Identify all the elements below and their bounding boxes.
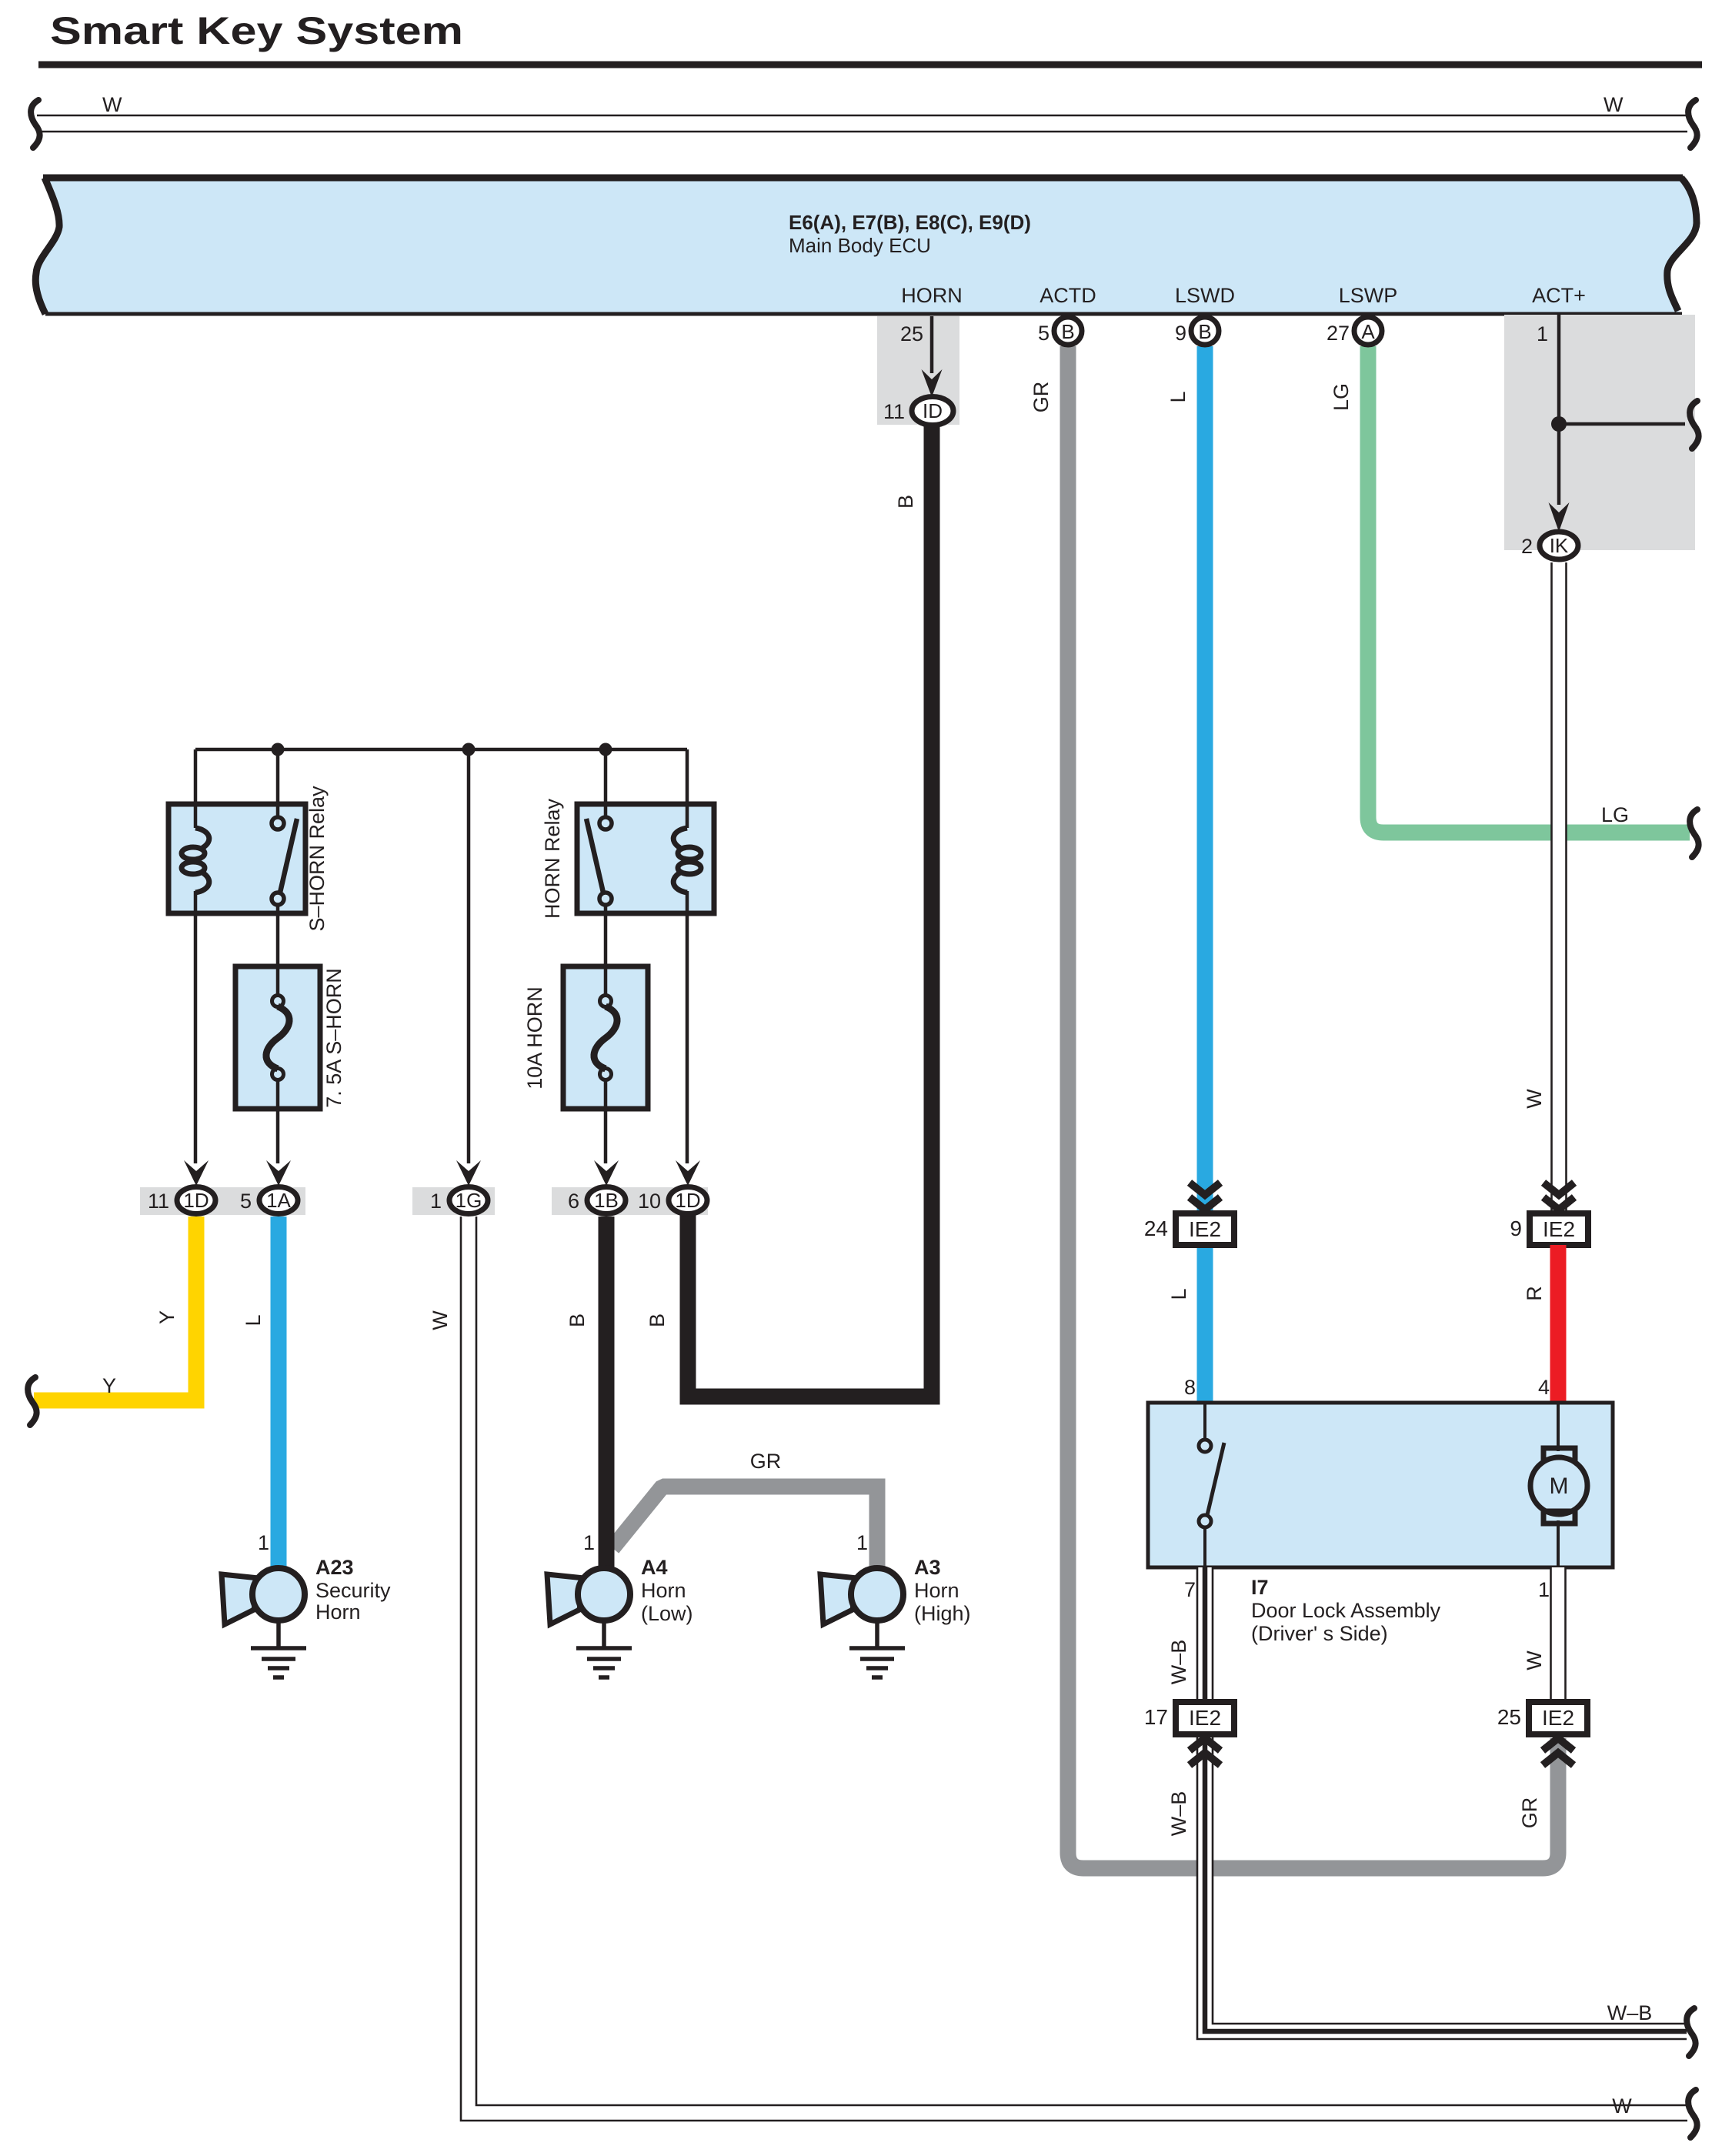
gray band 6/1B 10/1D [552,1187,708,1215]
svg-text:4: 4 [1538,1376,1550,1399]
switch of HORN relay [599,817,612,829]
svg-text:25: 25 [1497,1705,1521,1729]
arrow into 1B (6) [594,1160,619,1186]
connector 1A oval (5) [259,1187,298,1214]
wire L from IE2 24 to door lock pin 8 [1197,1245,1213,1403]
svg-text:L: L [1167,1288,1190,1300]
connector 1D oval (11) [177,1187,215,1214]
horn A23 Security Horn [222,1568,305,1624]
svg-text:1A: 1A [266,1189,291,1212]
svg-text:7. 5A S–HORN: 7. 5A S–HORN [322,968,345,1108]
coil of HORN relay [673,828,701,893]
svg-text:LG: LG [1601,803,1629,826]
svg-text:LG: LG [1330,383,1353,411]
svg-text:9: 9 [1510,1217,1522,1240]
fuse 10A HORN box [563,966,648,1109]
pin connector A (LSWP 27) [1354,317,1382,345]
arrow into 1D (10) [676,1160,700,1186]
svg-text:W: W [1604,93,1624,116]
wire W white from door lock pin 1 down to IE2 25 [1550,1567,1566,1702]
wire B from 1B(6) down to horn low [599,1217,615,1568]
svg-text:W: W [429,1310,452,1330]
chevron arrows into IE2 9 [1543,1183,1574,1210]
svg-text:IE2: IE2 [1542,1706,1574,1730]
connector 1G oval (1) [449,1187,488,1214]
wire break curl left of Y [28,1377,37,1425]
wire break curl right of W bus [1688,100,1697,148]
fuse element 7.5A S-HORN [272,996,284,1007]
svg-text:9: 9 [1175,322,1186,345]
wire branch to break [1559,422,1685,426]
ECU Main Body ECU box (torn ends) [35,178,1697,314]
svg-text:ID: ID [923,399,943,422]
arrow into 1D (11) [184,1160,209,1186]
fuse element 10A HORN [600,996,612,1007]
wire B thick from ID connector down, left, up to 1D connector [688,423,932,1397]
svg-text:8: 8 [1184,1376,1196,1399]
relay HORN Relay box [577,804,714,913]
svg-text:HORN: HORN [901,284,963,307]
svg-text:B: B [1198,320,1211,343]
connector IE2 (24) [1176,1213,1234,1245]
svg-text:I7: I7 [1251,1576,1269,1599]
svg-text:Horn: Horn [914,1579,959,1602]
svg-text:10A HORN: 10A HORN [523,986,546,1090]
wire HORN relay switch lead [604,749,608,817]
svg-text:Horn: Horn [641,1579,686,1602]
fuse 7.5A S-HORN box [235,966,320,1109]
svg-text:L: L [1166,391,1190,402]
svg-text:GR: GR [1518,1797,1541,1829]
svg-text:2: 2 [1521,535,1533,558]
svg-text:B: B [566,1313,589,1327]
svg-text:1: 1 [430,1190,442,1213]
svg-text:IE2: IE2 [1189,1217,1221,1241]
pin connector B (LSWD 9) [1191,317,1219,345]
wire LG from LSWP pin down then right to break [1368,346,1690,833]
connector IE2 (25) [1529,1702,1587,1734]
svg-text:1B: 1B [594,1189,619,1212]
connector IE2 (9) [1530,1213,1588,1245]
wire W-B white/black from door lock pin 7 down then right to break [1197,1567,1687,2039]
svg-text:(Driver' s Side): (Driver' s Side) [1251,1622,1388,1645]
svg-text:W–B: W–B [1607,2001,1653,2024]
svg-text:Y: Y [102,1374,116,1397]
ground at A23 [251,1620,306,1677]
svg-text:5: 5 [240,1190,252,1213]
svg-text:Door Lock Assembly: Door Lock Assembly [1251,1599,1441,1622]
svg-text:B: B [1061,320,1074,343]
svg-text:1D: 1D [675,1189,700,1212]
svg-text:A23: A23 [315,1556,354,1579]
svg-text:LSWP: LSWP [1339,284,1398,307]
svg-text:A3: A3 [914,1556,941,1579]
arrow into IK [1549,502,1570,532]
wire R red from IE2 9 to door lock pin 4 [1550,1245,1567,1403]
motor inside door lock [1557,1403,1560,1451]
svg-text:IE2: IE2 [1189,1706,1221,1730]
svg-text:A4: A4 [641,1556,668,1579]
svg-text:11: 11 [883,400,905,423]
svg-text:W: W [1523,1089,1546,1109]
wire L from 1A(5) down to security horn [271,1217,287,1568]
wire ACT+ pin stub [1557,314,1561,505]
svg-text:GR: GR [1030,382,1053,413]
svg-text:ACT+: ACT+ [1532,284,1586,307]
wire break curl right of branch [1690,401,1699,449]
svg-text:W–B: W–B [1167,1640,1190,1685]
chevron arrows up into IE2 25 [1543,1738,1573,1765]
svg-text:1: 1 [1538,1578,1550,1601]
svg-text:11: 11 [148,1190,169,1213]
arrow into 1G (1) [456,1160,481,1186]
svg-text:(Low): (Low) [641,1602,693,1625]
wire W white from 1G down then right to break [461,1217,1687,2121]
svg-text:6: 6 [568,1190,579,1213]
svg-text:1: 1 [583,1531,595,1554]
svg-text:E6(A), E7(B), E8(C), E9(D): E6(A), E7(B), E8(C), E9(D) [789,211,1031,234]
svg-text:B: B [646,1313,669,1327]
svg-text:W: W [102,93,122,116]
wire GR from ACTD pin down, right, up to IE2 25 [1068,346,1558,1868]
pin connector B (ACTD 5) [1054,317,1082,345]
chevron arrows into IE2 24 [1190,1183,1220,1210]
arrow into ID [922,369,943,397]
wire HORN pin stub [930,316,934,373]
svg-text:Main Body ECU: Main Body ECU [789,234,931,257]
svg-text:1: 1 [1537,322,1548,345]
gray band 1/1G [412,1187,495,1215]
svg-text:W: W [1523,1650,1546,1670]
wire break curl right of LG [1690,809,1699,857]
chevron arrows up into IE2 17 [1190,1738,1220,1765]
wire L from LSWD pin down to IE2 24 [1197,346,1213,1213]
svg-text:5: 5 [1038,322,1050,345]
svg-text:Smart Key System: Smart Key System [50,9,463,52]
horn A4 Horn (Low) [547,1568,630,1624]
wire GR jumper between horns [606,1479,886,1569]
horn A3 Horn (High) [820,1568,903,1624]
wire W white from IK down to IE2 9 [1551,562,1567,1213]
svg-text:10: 10 [638,1190,661,1213]
svg-text:27: 27 [1327,322,1350,345]
connector ID oval [912,397,953,426]
connector IE2 (17) [1176,1702,1234,1734]
wire bus above relays [195,748,687,752]
switch inside door lock [1203,1403,1206,1440]
wire: W power bus (white, top) [37,115,1687,132]
wire break curl right of W-B [1687,2008,1696,2056]
svg-text:L: L [242,1314,265,1326]
svg-text:17: 17 [1144,1705,1168,1729]
svg-text:B: B [894,495,917,509]
junction dot [1551,416,1567,432]
svg-text:M: M [1550,1473,1569,1499]
svg-text:IE2: IE2 [1543,1217,1575,1241]
svg-text:Horn: Horn [315,1600,361,1624]
svg-text:GR: GR [750,1450,782,1473]
svg-text:Security: Security [315,1579,391,1602]
wire break curl left of W bus [31,100,40,148]
svg-text:Y: Y [155,1310,179,1324]
svg-text:1: 1 [258,1531,269,1554]
svg-text:25: 25 [900,322,923,345]
svg-text:R: R [1523,1286,1546,1301]
arrow into 1A (5) [266,1160,291,1186]
svg-text:24: 24 [1144,1217,1168,1240]
title rule [38,62,1702,68]
shield gray box at HORN pin [877,316,959,425]
wire S-HORN coil lead (left) [194,749,198,828]
coil of S-HORN relay [182,828,209,893]
shield gray box at ACT+ pin [1504,315,1695,550]
switch of S-HORN relay [272,817,284,829]
svg-text:1: 1 [856,1531,868,1554]
wire Y from 1D(11) down then left to break [34,1217,196,1400]
svg-text:1G: 1G [456,1189,482,1212]
wire HORN relay coil lead (right) [686,749,689,828]
wire S-HORN switch lead [276,749,280,817]
ground at A3 [849,1620,905,1677]
connector 1D oval (10) [669,1187,707,1214]
svg-text:W–B: W–B [1167,1791,1190,1837]
svg-text:ACTD: ACTD [1040,284,1096,307]
svg-text:IK: IK [1550,534,1569,557]
svg-text:1D: 1D [183,1189,209,1212]
ground at A4 [576,1620,632,1677]
svg-text:HORN Relay: HORN Relay [541,798,564,919]
svg-text:7: 7 [1184,1578,1196,1601]
svg-text:(High): (High) [914,1602,971,1625]
relay S-HORN Relay box [169,804,305,913]
connector IK oval [1540,532,1578,559]
junction node dots [272,743,285,756]
wire break curl right of W bottom [1688,2090,1697,2138]
svg-text:S–HORN Relay: S–HORN Relay [305,786,329,932]
svg-text:LSWD: LSWD [1175,284,1235,307]
wire 1G lead [467,749,471,1163]
gray band 11/1D 5/1A [140,1187,305,1215]
svg-text:W: W [1612,2094,1632,2118]
connector 1B oval (6) [587,1187,626,1214]
svg-text:A: A [1361,320,1375,343]
